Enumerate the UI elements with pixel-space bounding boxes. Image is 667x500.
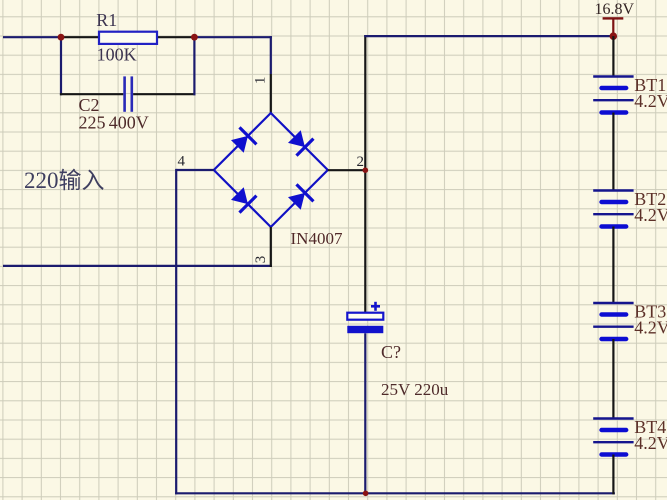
junction dot node 2 [363, 167, 369, 173]
svg-text:4.2V: 4.2V [634, 318, 667, 338]
junction dot right of R1 [191, 34, 198, 41]
svg-text:C?: C? [381, 342, 401, 362]
battery BT1 [593, 77, 633, 113]
wire node2 down to cap [364, 170, 366, 313]
wire BT3-BT4 [612, 339, 614, 419]
wire C2 left horizontal [60, 93, 123, 95]
svg-text:16.8V: 16.8V [595, 1, 635, 18]
junction dot power [610, 32, 618, 40]
svg-text:IN4007: IN4007 [291, 229, 343, 248]
junction dot cap bottom [363, 491, 369, 497]
svg-text:2: 2 [357, 154, 365, 170]
wire bottom rail [175, 492, 615, 494]
wire pin4 to left [176, 169, 214, 171]
svg-text:220输入: 220输入 [24, 168, 105, 193]
svg-text:4.2V: 4.2V [634, 205, 667, 225]
wire BT1-BT2 [612, 113, 614, 191]
wire top-left input [3, 36, 61, 38]
wire R1 right lead [157, 36, 194, 38]
svg-text:25V 220u: 25V 220u [381, 380, 449, 399]
svg-text:3: 3 [253, 256, 269, 264]
wire cap to bottom rail [364, 333, 366, 493]
wire left tall vertical [175, 169, 177, 495]
resistor R1 [99, 32, 157, 44]
bridge rectifier IN4007 [214, 113, 328, 227]
svg-text:4.2V: 4.2V [634, 91, 667, 111]
wire pin3 vertical [270, 227, 272, 267]
wire C2 right horizontal [133, 93, 195, 95]
capacitor C? electrolytic [347, 302, 383, 333]
wire BT2-BT3 [612, 227, 614, 304]
svg-text:4.2V: 4.2V [634, 433, 667, 453]
wire R1 left lead [61, 36, 99, 38]
svg-text:100K: 100K [97, 44, 137, 64]
power net 16.8V [603, 17, 624, 36]
diode D bottom-left [231, 187, 256, 212]
wire node2 vertical up [364, 35, 366, 170]
svg-text:R1: R1 [96, 10, 117, 30]
wire C2 right vertical [193, 36, 195, 95]
battery BT2 [593, 191, 633, 227]
svg-text:225: 225 [79, 113, 106, 133]
wire battery chain bottom [612, 455, 614, 495]
battery BT3 [593, 303, 633, 339]
diode D top-right [288, 130, 313, 155]
capacitor C2 [123, 76, 133, 111]
diode D bottom-right [288, 184, 313, 209]
diode D top-left [231, 127, 256, 152]
wire top rail [364, 35, 613, 37]
junction dot left [58, 34, 65, 41]
wire battery chain top [612, 36, 614, 76]
wire bottom input [3, 265, 272, 267]
wire pin2 to junction [328, 169, 366, 171]
wire C2 left vertical [60, 36, 62, 95]
wire junction to bridge corner [194, 36, 272, 38]
battery BT4 [593, 419, 633, 455]
wire down to bridge pin 1 [270, 36, 272, 74]
svg-text:1: 1 [252, 77, 268, 85]
svg-text:4: 4 [178, 154, 186, 170]
svg-text:400V: 400V [109, 113, 149, 133]
